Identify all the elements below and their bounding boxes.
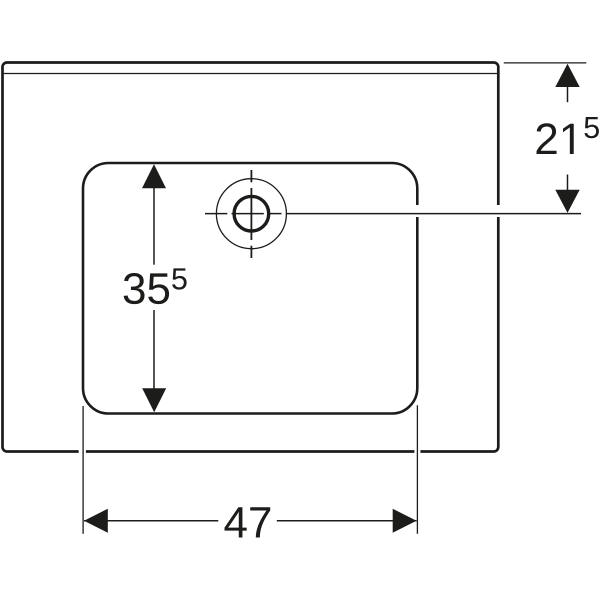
line crossing gaps	[79, 205, 502, 455]
dimension 21.5 line upper stem	[567, 85, 569, 102]
dimension 47 line left segment	[84, 520, 218, 522]
dimension 21.5 label	[537, 117, 599, 154]
dimension 35.5 line lower stem	[153, 310, 155, 391]
dimension 35.5 label	[124, 268, 187, 304]
dimension 21.5 down arrow	[555, 190, 579, 213]
dimension 47 left arrow	[84, 509, 108, 533]
tap hole vertical centerline	[250, 170, 252, 258]
dimension 47 right extension line	[416, 405, 418, 534]
basin outline	[83, 163, 417, 414]
dimension 35.5 down arrow	[142, 388, 166, 412]
dimension 47 right arrow	[393, 509, 417, 533]
dimension 35.5 up arrow	[142, 164, 166, 188]
dimension 21.5 up arrow	[555, 64, 579, 87]
tap hole inner circle	[234, 196, 269, 231]
dimension 21.5 top extension line	[504, 62, 587, 64]
dimension 47 line right segment	[277, 520, 417, 522]
dimension 47 label	[225, 507, 271, 537]
back rim line	[4, 73, 498, 75]
washbasin outer outline	[3, 63, 499, 452]
tap hole outer circle	[216, 179, 286, 249]
dimension 35.5 line upper stem	[153, 186, 155, 265]
dimension 21.5 line lower stem	[567, 175, 569, 211]
dimension 47 left extension line	[82, 406, 84, 534]
tap hole horizontal centerline extending right	[205, 213, 581, 215]
